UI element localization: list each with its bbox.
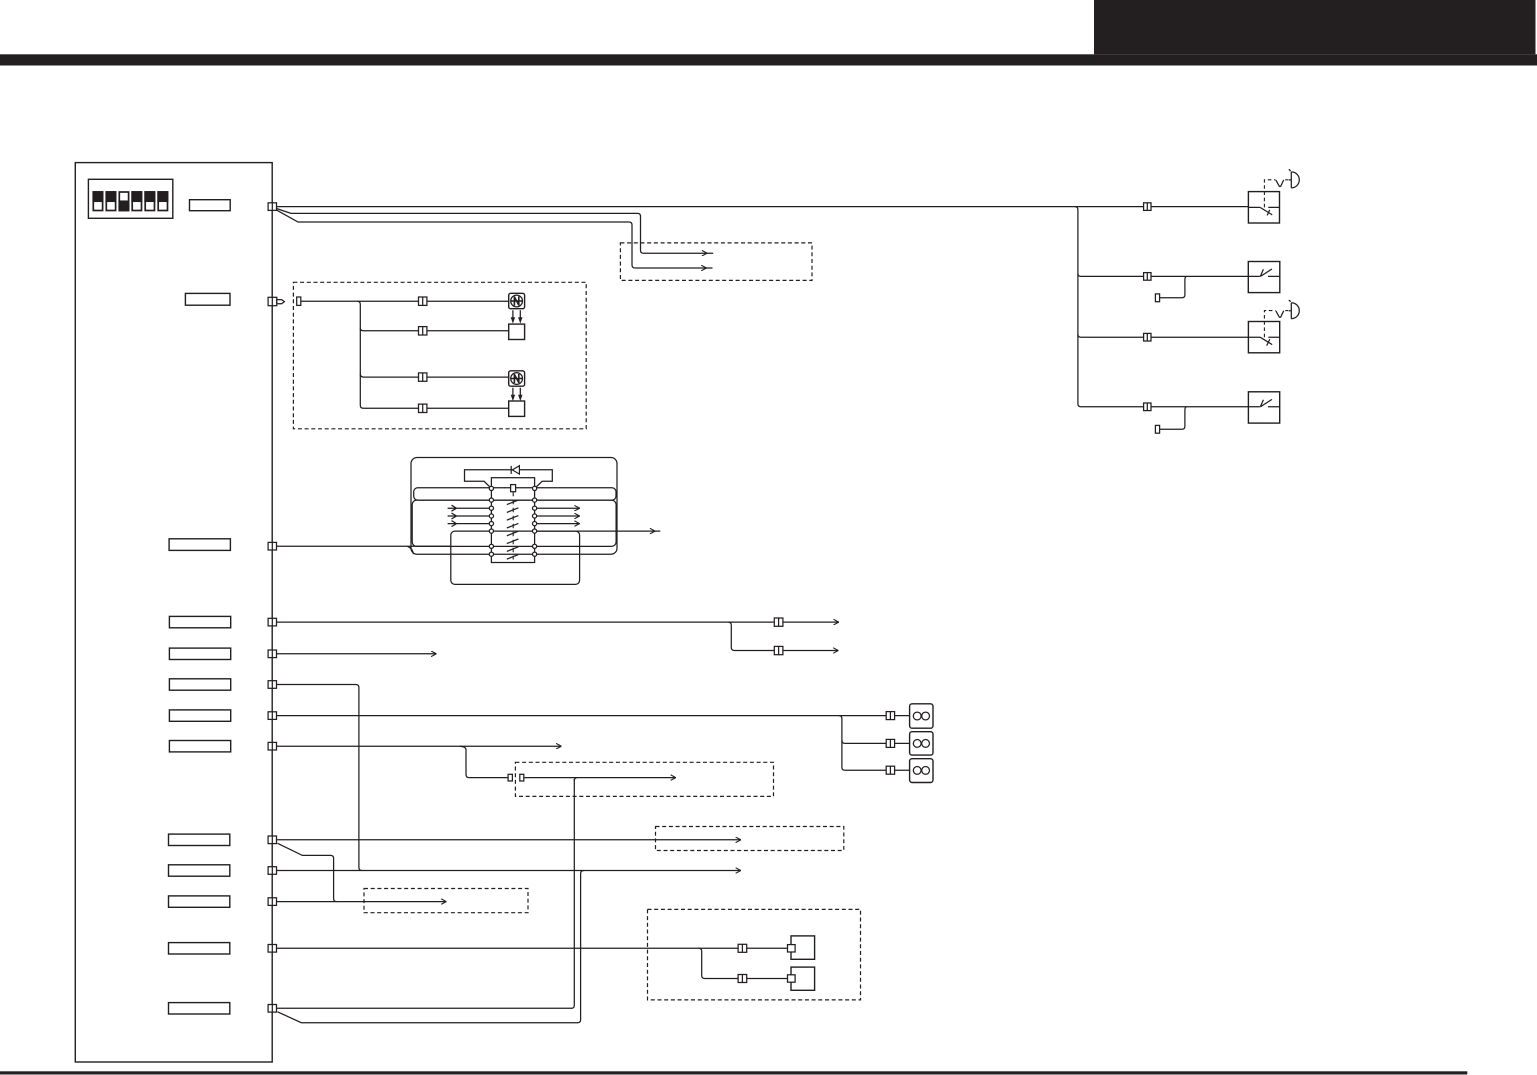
key switch box 4 <box>1248 392 1279 423</box>
wire: row D branch <box>699 948 792 978</box>
relay junction split <box>408 546 414 554</box>
speaker terminal box 2 <box>509 401 525 416</box>
relay contact block <box>491 478 534 563</box>
head unit edge connectors <box>268 203 284 1012</box>
relay long output arrow <box>535 530 656 532</box>
stub: switch 4 ground <box>1160 407 1187 429</box>
wire: branch to speaker 2 (+) <box>360 374 509 377</box>
relay loop 2 <box>414 488 616 500</box>
header title block (black) <box>1094 0 1536 54</box>
wire: row E <box>277 1007 572 1009</box>
single sockets <box>297 297 524 781</box>
relay lower loop <box>451 531 580 584</box>
relay coil loop with diode <box>465 470 553 489</box>
dashed box: external unit <box>648 909 861 1000</box>
wire: row 8 branch to amp connector <box>460 746 508 777</box>
external box 1 <box>791 936 815 959</box>
external box sockets <box>788 945 796 952</box>
key switch box 3 <box>1248 322 1279 353</box>
relay output arrows (right) <box>535 508 580 523</box>
header rule bar <box>0 54 1537 65</box>
bus branch row 2 <box>1078 273 1248 276</box>
external box 2 <box>791 967 815 990</box>
relay contact blades <box>507 500 519 559</box>
arrows speaker 2 <box>511 388 523 401</box>
head unit main box <box>75 163 272 1062</box>
speaker icon box 1 <box>509 293 525 308</box>
wire: amp lead with arrow <box>524 777 676 779</box>
dashed box: remote terminals <box>620 243 812 281</box>
bus branch row 3 <box>1078 334 1249 337</box>
wire: row A with arrow <box>277 839 741 841</box>
wire: row A link down to row C <box>278 843 337 901</box>
arrows speaker 1 <box>511 310 523 323</box>
stub: switch 2 ground <box>1160 276 1187 297</box>
wire: row B with arrow <box>277 870 741 872</box>
wire: row 6 drop to row B <box>277 685 362 871</box>
relay loop 3 <box>412 500 616 546</box>
key switch box 1 <box>1248 192 1279 223</box>
wire: speaker branch vertical <box>357 301 509 408</box>
relay coil <box>511 485 516 492</box>
wire: row D trunk <box>277 947 791 949</box>
wire: row 4 output <box>277 621 839 623</box>
bottom rule <box>0 1071 1467 1074</box>
wire: row 7 branch verticals <box>839 716 910 771</box>
wire: ACC main lead to key switches <box>277 206 1249 208</box>
relay outer loop <box>411 458 617 555</box>
connector label plates (left column) <box>169 200 231 1014</box>
relay mechanical link (dashed) <box>512 492 514 560</box>
wire: long drop V1 <box>574 778 577 781</box>
speaker terminal box 1 <box>509 324 525 339</box>
wire: speaker feed trunk <box>301 300 510 302</box>
dashed box: row C target <box>364 889 528 913</box>
diode D1 <box>511 466 519 474</box>
dashed box: row A target <box>656 827 844 851</box>
wire: row C with arrow <box>277 901 447 903</box>
right distribution bus <box>1075 207 1249 407</box>
dashed box: speakers <box>293 282 586 429</box>
chime bell 3 <box>1289 300 1300 318</box>
inline connectors (double) <box>419 203 1152 983</box>
relay input arrows (left) <box>448 505 492 526</box>
chime link 3 (dashed) <box>1264 311 1275 338</box>
infinity box 3 <box>910 759 933 783</box>
wire: row 8 with arrow <box>277 745 562 747</box>
infinity box 2 <box>910 732 933 755</box>
wire: paired leads to dashed terminal box <box>277 209 708 254</box>
chime bell 1 <box>1289 170 1300 188</box>
key switch box 2 <box>1248 262 1280 293</box>
DIP switch block <box>88 179 172 218</box>
dashed box: amplifier <box>515 762 773 796</box>
chime link 1 (dashed) <box>1264 180 1275 208</box>
wire: row 7 to antenna boxes <box>277 715 910 717</box>
speaker icon box 2 <box>509 371 525 386</box>
wire: row 5 short arrow <box>277 653 437 655</box>
wire: relay feed <box>277 545 450 547</box>
wire: branch to speaker 1 (-) <box>360 328 508 331</box>
wire rows handled above; infinity box 1 <box>910 704 933 728</box>
wire: row 4 branch down <box>728 622 839 650</box>
relay contact pins <box>489 486 536 556</box>
wire: row E lower link to row B branch <box>278 1012 578 1023</box>
